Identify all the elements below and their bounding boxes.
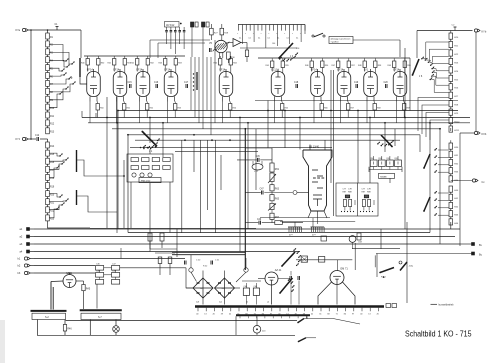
vertical x405 long xyxy=(404,115,406,229)
bus wire y258 xyxy=(34,258,185,260)
wire right edge vertical xyxy=(475,32,477,131)
capacitor box C xyxy=(112,280,120,285)
wire ladder lower bottom xyxy=(450,222,452,229)
svg-text:C45: C45 xyxy=(256,156,261,158)
resistor H22 xyxy=(449,50,453,56)
svg-text:C12: C12 xyxy=(35,135,40,137)
glow lamp cell 2 lamp box xyxy=(364,195,368,198)
coupling capacitor C18 xyxy=(295,84,297,88)
tube V1 pin wire xyxy=(89,102,91,123)
svg-text:R15: R15 xyxy=(50,154,55,156)
cathode resistor Rk6 xyxy=(281,104,284,111)
wire ladder to edge xyxy=(450,128,452,131)
resistor R15 xyxy=(46,150,50,156)
wire vertical xyxy=(419,135,421,152)
bus wire y140 xyxy=(135,139,400,141)
svg-text:C49: C49 xyxy=(257,219,262,221)
junction dot xyxy=(247,122,249,124)
tube EM71 legs xyxy=(318,282,332,305)
wire vertical xyxy=(95,113,97,118)
magic eye tube EM71 xyxy=(330,271,344,285)
anode rail left group xyxy=(84,55,185,57)
vertical x460 xyxy=(459,133,461,246)
svg-text:R34: R34 xyxy=(233,63,236,65)
terminal b2 xyxy=(24,264,27,267)
verticals lower right xyxy=(376,254,378,278)
svg-text:R33: R33 xyxy=(178,63,181,65)
cathode resistor Rk8 xyxy=(347,104,350,111)
wire y192 with capacitor C47 xyxy=(245,192,260,194)
svg-text:C44: C44 xyxy=(272,43,275,45)
svg-text:R50: R50 xyxy=(100,108,103,110)
junction dot xyxy=(162,122,164,124)
bus wire y229 xyxy=(34,228,460,230)
switch J5 lever xyxy=(381,135,392,147)
svg-text:R51: R51 xyxy=(127,108,130,110)
contact wire J6 xyxy=(433,69,449,71)
wire vertical feed xyxy=(202,57,204,129)
capacitor box C46 xyxy=(96,266,104,271)
svg-text:R36: R36 xyxy=(325,65,328,67)
resistor R3 xyxy=(46,49,50,55)
label box AV 5/12 xyxy=(165,22,180,28)
resistor H32 xyxy=(449,159,453,165)
resistor R23 xyxy=(46,215,50,221)
wire wiper J3a out xyxy=(77,160,125,176)
capacitor C2 mark xyxy=(454,27,456,31)
plate resistor Ra7 xyxy=(321,61,324,68)
svg-text:R45: R45 xyxy=(86,288,91,290)
resistor R11 xyxy=(46,112,50,118)
dark bar mid xyxy=(196,72,198,90)
svg-text:00: 00 xyxy=(196,313,198,315)
svg-text:R14: R14 xyxy=(50,146,55,148)
capacitor box C47 xyxy=(112,266,120,271)
cathode resistor Rk4 xyxy=(174,104,177,111)
svg-text:68: 68 xyxy=(327,313,329,315)
wire vertical feed xyxy=(210,57,212,135)
svg-text:R61: R61 xyxy=(275,169,280,171)
twin drop wires xyxy=(330,70,332,183)
tube V5 pin arrows xyxy=(219,53,221,59)
amplifier tube V9 LV1 xyxy=(364,72,378,97)
wire vertical xyxy=(200,140,202,233)
wire ladder2 tap xyxy=(49,164,62,169)
contact wire J6 xyxy=(433,76,449,85)
svg-text:R46: R46 xyxy=(67,329,72,331)
svg-text:5a2: 5a2 xyxy=(219,302,222,304)
svg-text:AZ 41: AZ 41 xyxy=(275,269,282,272)
switch J9 lever xyxy=(282,252,295,266)
svg-text:R52: R52 xyxy=(150,108,153,110)
electrolytic C60 box xyxy=(243,288,249,295)
svg-text:R59: R59 xyxy=(407,108,410,110)
resistor H41 xyxy=(449,194,453,200)
wire left edge vertical xyxy=(30,30,32,139)
wire vertical xyxy=(357,111,359,184)
resistor R20 xyxy=(46,191,50,197)
wire vertical xyxy=(193,140,195,172)
selector switch J9 arrows xyxy=(293,250,294,251)
svg-text:LB 13/40: LB 13/40 xyxy=(309,146,320,149)
rectifier bridge G1 xyxy=(193,278,213,298)
electrolytic C61 box xyxy=(253,288,259,295)
wire vertical feed xyxy=(194,57,196,117)
svg-text:R57: R57 xyxy=(351,108,354,110)
wire vertical xyxy=(267,101,269,149)
resistor H27 xyxy=(449,92,453,98)
resistor H28 xyxy=(449,101,453,107)
wire vertical xyxy=(220,155,222,190)
resistor H42 xyxy=(449,202,453,208)
tube V2 pin wire xyxy=(116,102,118,123)
plate resistor Ra2 xyxy=(123,59,126,66)
tube V8 pin wire xyxy=(340,102,342,123)
bus wire y117 xyxy=(82,117,470,119)
J1 contact dots xyxy=(140,147,142,149)
cathode resistor Rk3 xyxy=(146,104,149,111)
wire ladder tap xyxy=(49,45,66,62)
sync block wires xyxy=(149,149,151,154)
svg-text:C17: C17 xyxy=(184,82,189,84)
sync switch J1 contacts xyxy=(157,140,158,141)
svg-text:C15: C15 xyxy=(128,82,133,84)
svg-text:LV1: LV1 xyxy=(364,68,369,71)
svg-text:c: c xyxy=(284,33,285,35)
resistor R7 xyxy=(46,80,50,86)
svg-text:c: c xyxy=(237,33,238,35)
svg-text:c: c xyxy=(261,33,262,35)
resistor R46 xyxy=(63,325,66,332)
switch J4 lever xyxy=(279,43,293,58)
svg-text:EF14: EF14 xyxy=(136,68,143,71)
wire transformer right up xyxy=(406,270,408,303)
svg-text:R12: R12 xyxy=(50,124,55,126)
svg-text:H210: H210 xyxy=(454,122,460,124)
svg-text:c: c xyxy=(300,33,301,35)
screen resistor Rg8 xyxy=(337,61,340,68)
svg-text:Gr1: Gr1 xyxy=(200,287,203,290)
svg-text:R13: R13 xyxy=(50,132,55,134)
resistor R6 xyxy=(46,73,50,79)
resistor R8 xyxy=(46,88,50,94)
divider resistor R65 xyxy=(270,195,274,201)
svg-text:0,1: 0,1 xyxy=(287,38,289,40)
cathode resistor Rk7 xyxy=(320,104,323,111)
junction dot xyxy=(299,117,301,119)
plate resistor Ra5 xyxy=(229,59,232,66)
bus wire y236 xyxy=(34,236,455,238)
svg-text:R46: R46 xyxy=(305,65,308,67)
amplifier tube V1 EF14 xyxy=(87,72,101,97)
screen resistor Rg3 xyxy=(136,59,139,66)
amplifier tube V7 EF14 xyxy=(311,72,325,97)
junction dot xyxy=(439,128,441,130)
wire y221 crt base xyxy=(280,221,355,223)
svg-text:a4: a4 xyxy=(267,302,269,304)
wire vertical xyxy=(284,111,286,149)
wire vertical xyxy=(162,123,164,157)
wire AZ11 top to bus xyxy=(69,273,71,275)
heater comb symbol 1 xyxy=(288,227,290,232)
resistor H31 xyxy=(449,151,453,157)
wire vertical xyxy=(404,48,406,115)
mains switch J14 xyxy=(299,338,307,342)
input terminal KYz xyxy=(22,137,25,140)
block R25 C25 xyxy=(191,22,194,27)
svg-text:0,1: 0,1 xyxy=(268,38,270,40)
svg-text:26: 26 xyxy=(377,313,379,315)
bus wire y100 right xyxy=(255,100,458,102)
resistor R4 xyxy=(46,57,50,63)
switch J8 arrows xyxy=(438,192,449,194)
glow lamp cell 1 dotted row xyxy=(341,211,342,212)
timebase capacitor bank C30-C43 xyxy=(238,24,305,26)
wire vertical xyxy=(299,118,301,150)
wire vertical xyxy=(239,118,241,252)
resistor H24 xyxy=(449,67,453,73)
cathode resistor Rk1 xyxy=(96,104,99,111)
capacitor C1 trimmer xyxy=(56,27,58,31)
plate resistor Ra9 xyxy=(374,61,377,68)
resistor R18 xyxy=(46,174,50,180)
contact wire J6 xyxy=(433,72,448,78)
terminal b1 xyxy=(24,257,27,260)
wire ladder2 tap b xyxy=(49,209,57,218)
tube V3 pin wire xyxy=(139,102,141,123)
relay block contact boxes xyxy=(370,160,377,167)
svg-text:XB/AB: XB/AB xyxy=(380,175,387,178)
junction dot xyxy=(149,117,151,119)
wire y320 lower xyxy=(66,320,297,322)
CRT envelope xyxy=(303,150,332,211)
box X2 xyxy=(319,257,325,263)
coupling capacitor C16 xyxy=(155,84,157,88)
junction dot xyxy=(330,110,332,112)
switch J2 contact arrows xyxy=(65,60,66,61)
wire y222 with capacitor C49 xyxy=(245,222,258,224)
resistor R68 horizontal xyxy=(275,221,283,225)
svg-text:R43: R43 xyxy=(159,63,162,65)
junction dot xyxy=(116,122,118,124)
wire loop corner xyxy=(374,255,376,267)
resistor H23 xyxy=(449,58,453,64)
wire ladder tap xyxy=(49,68,62,71)
component V12 ellipse xyxy=(252,164,263,170)
resistor R19 xyxy=(46,183,50,189)
terminal By square xyxy=(472,252,475,255)
junction dot xyxy=(184,139,186,141)
svg-text:R32: R32 xyxy=(150,63,153,65)
svg-text:R18: R18 xyxy=(50,178,55,180)
svg-text:R93: R93 xyxy=(395,158,398,160)
svg-text:97: 97 xyxy=(352,313,354,315)
resistor R9 xyxy=(46,96,50,102)
bus left verticals xyxy=(117,111,119,230)
svg-text:R41: R41 xyxy=(108,63,111,65)
scale lamp winding bar left xyxy=(31,310,67,312)
shield tube V5 hatched xyxy=(215,40,227,52)
screen resistor Rg6 xyxy=(271,61,274,68)
junction dot xyxy=(369,117,371,119)
resistor R28 xyxy=(220,28,224,35)
svg-text:R55: R55 xyxy=(285,108,288,110)
svg-text:R92: R92 xyxy=(387,158,390,160)
capacitor box C49 xyxy=(112,273,120,278)
junction dot xyxy=(127,134,129,136)
resistor R14 xyxy=(46,142,50,148)
resistor R22 xyxy=(46,207,50,213)
svg-text:C20: C20 xyxy=(384,82,389,84)
tube V6 pin wire xyxy=(274,102,276,123)
scan edge artifact xyxy=(0,320,5,363)
sync block resistor row 2 xyxy=(131,166,138,170)
screen resistor Rg10 xyxy=(393,61,396,68)
switch J3a wiper bar xyxy=(76,150,78,172)
wire rail to switch xyxy=(416,31,418,59)
scale box S-7 xyxy=(81,313,121,319)
capacitor box C xyxy=(96,280,104,285)
switch J2 wiper bar xyxy=(79,58,81,77)
svg-text:EF14: EF14 xyxy=(113,68,120,71)
wire vertical feed xyxy=(214,40,216,123)
amplifier tube V3 EF14 xyxy=(136,72,150,97)
screen resistor Rg9 xyxy=(363,61,366,68)
coupling capacitor C19 xyxy=(355,84,357,88)
svg-text:T geöffnet: T geöffnet xyxy=(331,40,340,43)
wire ladder tap xyxy=(49,89,66,100)
wire ladder2 tap b xyxy=(49,194,60,198)
svg-text:KXb: KXb xyxy=(482,133,487,136)
divider resistor R63 xyxy=(270,185,274,191)
svg-text:Gr2: Gr2 xyxy=(222,287,225,290)
junction dot xyxy=(117,110,119,112)
plate resistor Ra10 xyxy=(403,61,406,68)
resistor R29 xyxy=(245,50,248,57)
junction dot xyxy=(106,117,108,119)
timebase switch J4 contacts xyxy=(295,54,296,55)
svg-text:0,1: 0,1 xyxy=(239,38,241,40)
wire ladder tap xyxy=(49,60,67,67)
tube V10 pin wire xyxy=(396,102,398,123)
switch T1 xyxy=(312,35,314,37)
svg-text:kurzzeitbetrieb: kurzzeitbetrieb xyxy=(439,304,455,307)
resistor R75 xyxy=(160,233,164,241)
relay block lower rail xyxy=(369,169,402,171)
CRT top feed wires xyxy=(309,145,311,151)
svg-text:R63: R63 xyxy=(275,189,280,191)
tube V5 pin wire xyxy=(222,102,224,123)
block R26 C26 xyxy=(202,22,205,27)
svg-text:C47: C47 xyxy=(260,189,265,191)
screen resistor Rg4 xyxy=(164,59,167,66)
wire vertical xyxy=(206,140,208,210)
terminal b3 xyxy=(24,271,27,274)
svg-text:R35: R35 xyxy=(285,65,288,67)
pickup circle on wire xyxy=(293,191,297,195)
resistor H33 xyxy=(449,168,453,174)
switch J7 lever xyxy=(424,154,430,168)
contact wire J6 xyxy=(426,49,448,60)
wire ladder2 tap b xyxy=(49,200,66,203)
transformer taps xyxy=(197,308,199,312)
svg-text:b2: b2 xyxy=(246,302,248,304)
contact dot column xyxy=(193,73,194,74)
svg-text:KYa: KYa xyxy=(16,29,21,32)
bus wire y123 xyxy=(88,122,470,124)
screen resistor Rg5 xyxy=(219,59,222,66)
svg-text:c: c xyxy=(292,33,293,35)
glow cell enclosure xyxy=(336,183,378,216)
wire vertical feed xyxy=(198,57,200,123)
wire KYb rail xyxy=(417,30,473,32)
wire ladder2 tap b xyxy=(49,205,62,210)
svg-text:EF14: EF14 xyxy=(393,68,400,71)
resistor H20 xyxy=(449,33,453,39)
resistor R21 xyxy=(46,199,50,205)
sweep switch J5 contacts xyxy=(391,142,392,143)
glow lamp cell 2 dotted row xyxy=(360,211,361,212)
pot circle right xyxy=(244,268,248,272)
resistor H29 xyxy=(449,109,453,115)
svg-text:0,1: 0,1 xyxy=(296,38,298,40)
terminal a4 square xyxy=(27,250,30,253)
screen resistor Rg1 xyxy=(86,59,89,66)
wire vertical xyxy=(369,118,371,184)
wire lower ladder top xyxy=(450,140,452,143)
svg-text:R90: R90 xyxy=(370,158,373,160)
divider potentiometer P1 xyxy=(270,173,274,182)
svg-text:R49: R49 xyxy=(388,65,391,67)
junction dot xyxy=(244,128,246,130)
selector switch J10 arrows xyxy=(288,280,289,281)
svg-text:C18: C18 xyxy=(294,82,299,84)
wire wiper to amplifier grid xyxy=(80,77,87,84)
switch J1 lever xyxy=(142,132,157,147)
mains transformer core bar xyxy=(195,305,384,307)
resistor R5 xyxy=(46,65,50,71)
junction dot xyxy=(384,122,386,124)
svg-text:R30: R30 xyxy=(101,63,104,65)
pot circle left xyxy=(189,268,193,272)
junction dot xyxy=(404,117,406,119)
glow lamp cell 1 resistors xyxy=(343,200,346,207)
HV rail vertical thick xyxy=(244,129,246,270)
amplifier tube V10 EF14 xyxy=(393,72,407,97)
svg-text:EM 71: EM 71 xyxy=(341,268,349,271)
junction dot xyxy=(284,110,286,112)
junction dot xyxy=(429,122,431,124)
contact wire J6 xyxy=(433,63,449,65)
svg-text:R16: R16 xyxy=(50,162,55,164)
terminal a1 square xyxy=(27,228,30,231)
resistor R12 xyxy=(46,120,50,126)
resistor R13 xyxy=(46,128,50,134)
resistor H26 xyxy=(449,84,453,90)
glow lamp cell 1 lamp box xyxy=(345,195,349,198)
amplifier tube V6 ECL11 xyxy=(271,72,285,97)
wire grid down xyxy=(96,284,98,308)
terminal a3 square xyxy=(27,243,30,246)
contact wire J6 xyxy=(423,42,449,59)
svg-text:55: 55 xyxy=(319,313,321,315)
wire to EM71 xyxy=(337,260,339,271)
wire y260 mid xyxy=(296,259,352,261)
resistor R17 xyxy=(46,166,50,172)
svg-text:EF14: EF14 xyxy=(219,68,226,71)
transformer terminal boxes xyxy=(386,304,391,308)
switch J6 lever xyxy=(413,59,420,75)
